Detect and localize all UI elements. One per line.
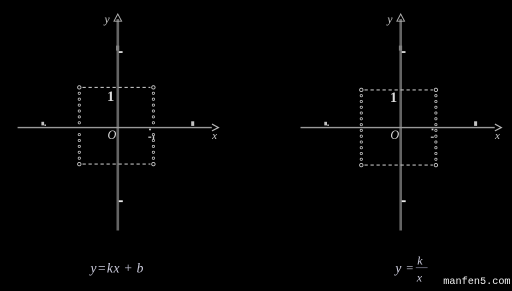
- left diagram y-axis: [117, 19, 120, 231]
- left diagram x-axis tick label 2: [191, 121, 194, 126]
- svg-text:y: y: [104, 14, 111, 26]
- svg-text:x: x: [416, 271, 423, 285]
- right formula fraction bar: [416, 267, 428, 269]
- svg-text:O: O: [390, 128, 399, 142]
- svg-text:x: x: [211, 130, 217, 142]
- right formula y=k/x: [393, 253, 423, 284]
- left diagram dotted square top edge: [83, 86, 151, 88]
- left diagram x-axis tick label -2: [41, 122, 44, 126]
- left diagram x-axis: [18, 127, 212, 129]
- right diagram x-axis tick label -2: [324, 122, 327, 126]
- left diagram dotted square left edge: [78, 92, 80, 159]
- svg-text:k: k: [417, 253, 423, 267]
- left diagram y-axis tick at y=-2: [119, 200, 123, 202]
- svg-text:O: O: [108, 128, 117, 142]
- right diagram y-axis tick at y=2: [399, 46, 402, 51]
- left diagram dotted square right edge: [152, 92, 154, 159]
- svg-text:y=kx + b: y=kx + b: [89, 261, 145, 276]
- right diagram y-axis arrowhead: [397, 14, 405, 21]
- svg-text:x: x: [494, 130, 500, 142]
- right diagram dotted square top edge: [365, 89, 433, 91]
- right diagram y-axis tick at y=-2: [402, 200, 406, 202]
- left diagram label -1 at right edge below axis: [148, 137, 151, 138]
- right diagram x-axis: [301, 127, 495, 129]
- svg-text:1: 1: [107, 89, 114, 105]
- right diagram dotted square bottom edge: [365, 164, 433, 166]
- svg-text:y: y: [386, 14, 393, 26]
- left diagram square corner rings: [78, 86, 81, 89]
- svg-text:y: y: [393, 261, 401, 276]
- right diagram x-axis tick label 2: [474, 121, 477, 126]
- left diagram x-axis arrowhead: [212, 124, 218, 131]
- left diagram dotted square bottom edge: [83, 163, 151, 165]
- right diagram dotted square left edge: [360, 95, 362, 161]
- svg-text:1: 1: [390, 90, 397, 106]
- right diagram label -1 at right edge below axis: [431, 137, 434, 138]
- right diagram dotted square right edge: [435, 95, 437, 161]
- right diagram square corner rings: [360, 88, 363, 91]
- right diagram small dot below axis near right edge: [432, 129, 434, 131]
- svg-text:manfen5.com: manfen5.com: [443, 276, 510, 286]
- right diagram x-axis arrowhead: [495, 124, 501, 131]
- left diagram y-axis arrowhead: [114, 14, 122, 21]
- right diagram y-axis: [399, 19, 402, 231]
- left diagram small dot below axis near right edge: [149, 129, 151, 131]
- svg-text:=: =: [406, 261, 413, 275]
- left diagram y-axis tick at y=2: [116, 46, 119, 51]
